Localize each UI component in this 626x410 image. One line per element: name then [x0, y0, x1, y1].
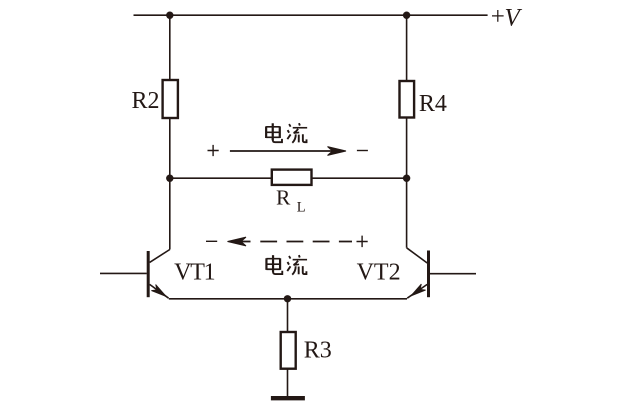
svg-text:VT1: VT1: [174, 260, 215, 286]
svg-text:L: L: [297, 200, 306, 216]
svg-text:R: R: [276, 186, 291, 210]
svg-text:VT2: VT2: [357, 260, 401, 286]
svg-text:R2: R2: [132, 88, 160, 114]
svg-text:R4: R4: [419, 91, 447, 117]
svg-text:R3: R3: [304, 338, 332, 364]
svg-text:V: V: [505, 5, 523, 32]
svg-text:+: +: [491, 3, 505, 30]
